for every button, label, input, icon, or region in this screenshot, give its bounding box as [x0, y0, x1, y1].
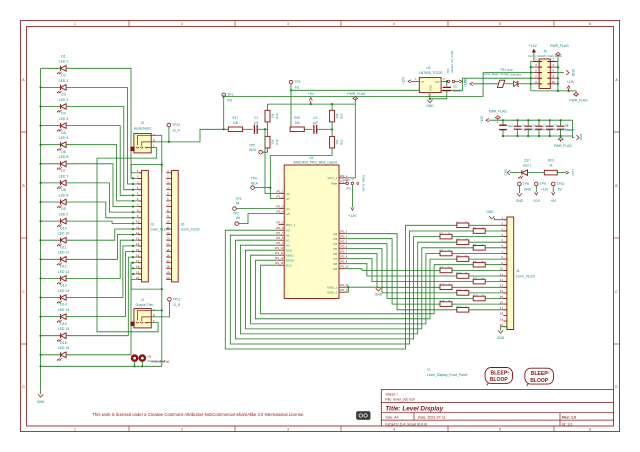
- wire D1 to J3 pin 2: [66, 68, 133, 178]
- svg-text:3: 3: [287, 427, 289, 431]
- svg-text:TP3: TP3: [233, 211, 239, 215]
- svg-text:LED 1: LED 1: [523, 163, 532, 167]
- wire C9 to GND: [430, 91, 447, 99]
- CC license badge: [357, 412, 371, 420]
- svg-text:D6: D6: [333, 252, 337, 256]
- svg-text:JP2_12: JP2_12: [340, 288, 349, 292]
- svg-text:17: 17: [166, 259, 170, 263]
- wire bus to D3: [41, 106, 61, 108]
- svg-text:11: 11: [136, 225, 139, 229]
- svg-text:JP1_7: JP1_7: [276, 231, 284, 235]
- svg-text:J2: J2: [141, 121, 145, 125]
- svg-text:LED 13: LED 13: [58, 289, 70, 293]
- svg-text:Id: 1/1: Id: 1/1: [562, 422, 572, 426]
- svg-text:5: 5: [499, 427, 501, 431]
- svg-text:12: 12: [166, 231, 170, 235]
- junction J3 pin 19: [132, 273, 134, 275]
- svg-text:18: 18: [500, 312, 504, 316]
- svg-text:D11: D11: [60, 245, 66, 249]
- svg-text:D12: D12: [60, 265, 66, 269]
- wire C1 node: [257, 128, 267, 130]
- svg-text:LED 2: LED 2: [59, 79, 69, 83]
- svg-text:C9: C9: [453, 85, 457, 89]
- wire D19 to J5: [518, 83, 531, 85]
- svg-text:D3: D3: [333, 237, 337, 241]
- power +12V U3: [408, 80, 411, 83]
- svg-text:LED 4: LED 4: [59, 117, 69, 121]
- wire bus to D6: [41, 163, 61, 165]
- svg-text:+12V: +12V: [571, 169, 575, 176]
- svg-text:JP1_8: JP1_8: [276, 236, 284, 240]
- sheet ruler ticks and zone numbers: [128, 21, 130, 27]
- wire D11 to J3 pin 12: [66, 235, 133, 260]
- wire R20 to C2: [304, 128, 312, 130]
- svg-text:JP1_13: JP1_13: [275, 261, 284, 265]
- svg-text:LED 9: LED 9: [59, 213, 69, 217]
- junction J3 pin 18: [132, 267, 134, 269]
- svg-text:PWR_FLAG: PWR_FLAG: [489, 109, 508, 113]
- junction J3 pin 4: [132, 189, 134, 191]
- svg-text:H2: H2: [148, 355, 152, 359]
- svg-text:File: level_pcb.sch: File: level_pcb.sch: [385, 397, 415, 401]
- wire GND to mounting pads: [41, 365, 162, 367]
- svg-text:+: +: [496, 120, 498, 124]
- svg-text:JP5: JP5: [346, 186, 351, 190]
- svg-text:JP2_3: JP2_3: [340, 230, 348, 234]
- svg-text:J2_R: J2_R: [172, 129, 180, 133]
- svg-text:Conn_01x20: Conn_01x20: [181, 228, 200, 232]
- svg-text:LED 10: LED 10: [58, 232, 70, 236]
- svg-text:10k: 10k: [295, 121, 301, 125]
- wire TP6 IN1 to J5: [290, 84, 292, 129]
- wire D5 to J3 pin 6: [66, 145, 133, 201]
- svg-text:D7: D7: [61, 169, 66, 173]
- svg-text:RST_1: RST_1: [286, 223, 296, 227]
- connector J3 pins: [133, 172, 142, 174]
- svg-text:10: 10: [500, 267, 504, 271]
- svg-text:15: 15: [136, 248, 140, 252]
- power +12V caps: [486, 119, 489, 122]
- ground GND caps: [573, 136, 575, 138]
- svg-text:PWR_FLAG: PWR_FLAG: [554, 144, 573, 148]
- wire VO node: [441, 80, 447, 82]
- junction J3 pin 7: [132, 205, 134, 207]
- svg-text:T: T: [153, 319, 155, 323]
- svg-text:10uF: 10uF: [508, 125, 514, 128]
- svg-text:SCK: SCK: [286, 248, 292, 252]
- svg-text:20: 20: [166, 276, 170, 280]
- svg-text:MISO: MISO: [286, 253, 294, 257]
- svg-text:C7: C7: [554, 124, 558, 128]
- junction J3 pin 10: [132, 222, 134, 224]
- logo G2 BLEEP BLOOP: [525, 368, 554, 384]
- svg-text:JP2_1: JP2_1: [340, 174, 348, 178]
- svg-text:Sheet: /: Sheet: /: [385, 393, 397, 397]
- svg-text:TP9: TP9: [540, 182, 546, 186]
- svg-text:1uF: 1uF: [253, 121, 259, 125]
- svg-text:Raw: Raw: [331, 182, 338, 186]
- junction J3 pin 3: [132, 183, 134, 185]
- capacitor C5: [527, 120, 529, 126]
- wire caps bottom rail: [503, 120, 573, 136]
- svg-text:10: 10: [552, 80, 556, 84]
- capacitor C6: [538, 120, 540, 126]
- connector J6 pins: [166, 172, 171, 174]
- svg-text:IN2A: IN2A: [249, 148, 257, 152]
- svg-text:JP2_7: JP2_7: [340, 250, 348, 254]
- svg-text:1uF: 1uF: [313, 121, 319, 125]
- ground GND D17: [507, 170, 510, 175]
- wire bus to D1: [41, 67, 61, 69]
- wire bus to D5: [41, 144, 61, 146]
- svg-text:TP8: TP8: [523, 182, 529, 186]
- junction J3 pin 6: [132, 200, 134, 202]
- svg-text:LM7805_TO220: LM7805_TO220: [419, 71, 443, 75]
- junction J3 pin 17: [132, 262, 134, 264]
- capacitor C9: [446, 81, 448, 86]
- resistor R21: [330, 110, 335, 122]
- svg-text:LED 7: LED 7: [59, 174, 69, 178]
- wire J2 tip loop to J1: [97, 148, 158, 332]
- wire R17 to C1: [243, 128, 253, 130]
- svg-text:2: 2: [181, 427, 183, 431]
- test point TP11: [168, 298, 172, 302]
- svg-text:GND: GND: [516, 199, 524, 203]
- mounting pad H1: [131, 354, 139, 362]
- junction bus D4: [40, 125, 42, 127]
- svg-text:+12V: +12V: [348, 214, 357, 218]
- svg-text:JP1_5: JP1_5: [276, 221, 284, 225]
- test point TP5: [262, 148, 267, 152]
- svg-text:D8: D8: [333, 262, 337, 266]
- svg-text:JP1_9: JP1_9: [276, 241, 284, 245]
- ground GND U3: [429, 99, 431, 100]
- svg-text:R19: R19: [275, 113, 279, 119]
- svg-text:LED 1: LED 1: [59, 60, 69, 64]
- svg-text:KiCad E.D.A. kicad (6.0.0): KiCad E.D.A. kicad (6.0.0): [385, 422, 427, 426]
- svg-text:JP1_1: JP1_1: [276, 190, 284, 194]
- test point TP6: [289, 80, 293, 84]
- svg-text:TP12: TP12: [172, 123, 180, 127]
- connector J6 body: [172, 170, 179, 282]
- wire GND pins U1: [345, 287, 349, 292]
- svg-text:C1: C1: [254, 116, 258, 120]
- wire J1 sleeve to gap bus: [151, 309, 162, 311]
- svg-text:17: 17: [136, 259, 140, 263]
- svg-text:A4: A4: [236, 202, 240, 206]
- wire J5 pin6 to GND: [556, 72, 564, 74]
- junction bus D5: [40, 144, 42, 146]
- ground GND bottom left: [38, 394, 43, 397]
- svg-text:+12V: +12V: [402, 76, 406, 84]
- svg-text:BLOOP: BLOOP: [490, 377, 508, 383]
- junction J3 pin 5: [132, 194, 134, 196]
- wire GND to D17: [510, 172, 522, 174]
- svg-text:LED 3: LED 3: [59, 98, 69, 102]
- svg-text:D5: D5: [333, 247, 337, 251]
- svg-text:10: 10: [166, 220, 170, 224]
- wire J5 left bracket: [531, 62, 534, 91]
- svg-text:D4: D4: [61, 112, 66, 116]
- svg-text:D9: D9: [61, 207, 66, 211]
- svg-text:G2: G2: [546, 371, 550, 375]
- wire D3 to J3 pin 4: [66, 107, 133, 190]
- svg-text:6: 6: [589, 22, 591, 26]
- svg-text:MountingPad: MountingPad: [152, 359, 170, 363]
- svg-text:LED 12: LED 12: [58, 270, 70, 274]
- wire bus to D9: [41, 220, 61, 222]
- svg-text:JP2_10: JP2_10: [340, 265, 349, 269]
- svg-text:GND: GND: [486, 210, 494, 214]
- capacitor C4: [517, 120, 519, 126]
- svg-text:LED 11: LED 11: [58, 251, 69, 255]
- svg-text:A1: A1: [286, 233, 290, 237]
- svg-text:14: 14: [166, 242, 170, 246]
- ground GND J4 bottom: [501, 327, 507, 331]
- svg-text:D2: D2: [333, 232, 337, 236]
- svg-text:14: 14: [136, 242, 140, 246]
- svg-text:LED 15: LED 15: [58, 327, 70, 331]
- svg-text:TP2: TP2: [236, 197, 242, 201]
- connector J4 pins: [503, 219, 507, 221]
- svg-text:R23: R23: [548, 159, 554, 163]
- wire TP1 to R17: [223, 97, 225, 130]
- svg-text:JP2_5: JP2_5: [340, 240, 348, 244]
- svg-text:TP6: TP6: [295, 80, 301, 84]
- wire +5V rail: [268, 103, 356, 105]
- svg-text:15: 15: [500, 295, 504, 299]
- mcu U1 left pins: [279, 193, 285, 195]
- wire TP11 to J1 ring: [151, 301, 169, 317]
- junction J3 pin 2: [132, 177, 134, 179]
- wire D8 to J3 pin 9: [66, 202, 133, 218]
- wire J3 pin20 wrap: [131, 280, 162, 290]
- svg-text:GND_1: GND_1: [327, 285, 337, 289]
- svg-text:Conn_02x05_Odd_Even: Conn_02x05_Odd_Even: [528, 54, 562, 58]
- power flag PWR_FLAG +5V: [354, 99, 356, 101]
- wire +5V to VCC: [345, 104, 356, 178]
- svg-text:R18: R18: [275, 139, 279, 145]
- wire bundle left pins to J4 rows 2-9: [225, 225, 456, 349]
- resistor R19: [265, 110, 270, 122]
- svg-text:PWR_FLAG: PWR_FLAG: [569, 99, 588, 103]
- mounting pad H2: [139, 354, 147, 362]
- wire bus to D12: [41, 277, 61, 279]
- svg-text:15: 15: [166, 248, 170, 252]
- svg-text:18: 18: [136, 265, 140, 269]
- svg-text:4: 4: [393, 427, 395, 431]
- power +5V U3: [455, 80, 460, 82]
- svg-text:JP2_4: JP2_4: [340, 235, 348, 239]
- svg-text:1: 1: [74, 22, 76, 26]
- svg-text:GND: GND: [524, 187, 532, 191]
- svg-text:C6: C6: [543, 124, 547, 128]
- logo G1 BLEEP BLOOP: [485, 368, 512, 384]
- junction J3 pin 11: [132, 228, 134, 230]
- svg-text:10: 10: [136, 220, 140, 224]
- junction bus D15: [40, 335, 42, 337]
- wire D7 to J3 pin 8: [66, 183, 133, 212]
- junction J3 pin 9: [132, 217, 134, 219]
- power +12V D17: [566, 171, 569, 174]
- svg-text:PWR_FLAG: PWR_FLAG: [347, 92, 366, 96]
- svg-text:D15: D15: [60, 322, 66, 326]
- svg-text:GND_2: GND_2: [327, 290, 337, 294]
- wire R23 to +12V: [557, 172, 566, 174]
- wire D2 to J3 pin 3: [66, 87, 133, 184]
- svg-text:13: 13: [136, 237, 140, 241]
- svg-text:FB1: FB1: [501, 68, 507, 72]
- junction bus D7: [40, 182, 42, 184]
- svg-text:C5: C5: [532, 124, 536, 128]
- test point TP12: [167, 123, 171, 127]
- junction bus D16: [40, 354, 42, 356]
- svg-text:A6: A6: [286, 192, 290, 196]
- svg-text:GND: GND: [375, 293, 383, 297]
- svg-text:D5: D5: [61, 131, 66, 135]
- wire bus to D7: [41, 182, 61, 184]
- capacitor C3 polarized: [502, 120, 504, 125]
- svg-text:TP4: TP4: [251, 177, 257, 181]
- wire bus to D16: [41, 354, 61, 356]
- junction J3 pin 13: [132, 239, 134, 241]
- svg-text:5: 5: [499, 22, 501, 26]
- power flag PWR_FLAG caps bottom: [560, 136, 562, 137]
- svg-text:+5V: +5V: [463, 77, 467, 84]
- svg-text:12: 12: [136, 231, 140, 235]
- svg-text:D17: D17: [524, 159, 530, 163]
- wire IN2 node to A6: [265, 129, 279, 193]
- svg-text:VO: VO: [435, 80, 440, 84]
- junction bus D13: [40, 296, 42, 298]
- svg-text:D4: D4: [333, 242, 337, 246]
- svg-text:JP2_8: JP2_8: [340, 255, 348, 259]
- svg-text:17: 17: [500, 306, 504, 310]
- svg-text:JP1_10: JP1_10: [275, 246, 284, 250]
- svg-text:R17: R17: [232, 116, 238, 120]
- wire bus to D4: [41, 125, 61, 127]
- svg-text:R21: R21: [339, 113, 343, 119]
- wire bus to D15: [41, 335, 61, 337]
- power +12V Raw: [351, 185, 353, 208]
- test point TP8: [518, 182, 522, 186]
- wire R19 to +5V rail: [267, 104, 269, 110]
- svg-text:14: 14: [500, 289, 504, 293]
- ground GND J5 right: [566, 70, 569, 75]
- svg-text:6: 6: [589, 427, 591, 431]
- svg-text:J1_R: J1_R: [173, 303, 181, 307]
- wire U3 GND pin: [429, 93, 431, 99]
- svg-text:This work is licensed under a: This work is licensed under a Creative C…: [93, 412, 305, 417]
- svg-text:D19: D19: [507, 68, 513, 72]
- svg-text:VI: VI: [421, 80, 424, 84]
- junction bus D11: [40, 258, 42, 260]
- svg-text:R22: R22: [339, 139, 343, 145]
- wire bus to D11: [41, 258, 61, 260]
- wire TP2 to A4: [236, 208, 278, 210]
- svg-text:D6: D6: [61, 150, 66, 154]
- svg-text:20: 20: [136, 276, 140, 280]
- wire D10 to J3 pin 11: [66, 229, 133, 240]
- wire J5 bottom rail: [531, 90, 573, 92]
- svg-text:JP1_11: JP1_11: [275, 251, 284, 255]
- svg-text:Jumper_NO_Small: Jumper_NO_Small: [450, 51, 454, 73]
- svg-text:TP5: TP5: [249, 143, 255, 147]
- svg-text:A4: A4: [286, 207, 290, 211]
- svg-text:D14: D14: [60, 303, 66, 307]
- svg-text:GND: GND: [497, 336, 505, 340]
- junction J3 pin 16: [132, 256, 134, 258]
- svg-text:16: 16: [166, 253, 170, 257]
- test point TP1: [222, 93, 226, 97]
- svg-text:D2: D2: [61, 74, 66, 78]
- wire bus to D14: [41, 316, 61, 318]
- junction J3 pin 8: [132, 211, 134, 213]
- svg-text:A7: A7: [286, 197, 290, 201]
- wire D14 to J3 pin 15: [66, 252, 133, 317]
- svg-text:19: 19: [500, 317, 504, 321]
- junction J3 pin 14: [132, 245, 134, 247]
- power +12V input arrow: [470, 82, 473, 85]
- svg-text:LED 16: LED 16: [58, 346, 70, 350]
- svg-text:A3: A3: [286, 243, 290, 247]
- svg-text:J6: J6: [181, 222, 185, 226]
- svg-text:19: 19: [136, 270, 140, 274]
- svg-text:3: 3: [287, 22, 289, 26]
- svg-text:16: 16: [500, 300, 504, 304]
- svg-text:16: 16: [136, 253, 140, 257]
- svg-text:X1: X1: [427, 367, 431, 371]
- svg-text:D10: D10: [286, 263, 292, 267]
- svg-text:+5V: +5V: [308, 92, 315, 96]
- wire bus to D8: [41, 201, 61, 203]
- wire +12V to FB1: [473, 83, 498, 85]
- svg-text:100nF: 100nF: [453, 89, 462, 93]
- svg-text:D16: D16: [60, 341, 66, 345]
- wire J3 pin1 bridge to J6 pin1: [131, 165, 162, 173]
- wire bus to D13: [41, 297, 61, 299]
- test point TP4: [251, 186, 255, 190]
- power +5V filters: [310, 101, 312, 105]
- svg-text:A2: A2: [286, 238, 290, 242]
- svg-text:A5: A5: [286, 212, 290, 216]
- power +12V J5 rail: [568, 88, 570, 91]
- wire bus to D10: [41, 239, 61, 241]
- svg-text:GND: GND: [571, 69, 575, 77]
- svg-text:+5V: +5V: [550, 199, 557, 203]
- svg-text:C4: C4: [522, 124, 526, 128]
- wire bus to D2: [41, 86, 61, 88]
- junction bus D9: [40, 220, 42, 222]
- svg-text:18: 18: [166, 265, 170, 269]
- power flag PWR_FLAG Raw: [357, 182, 359, 184]
- svg-text:D13: D13: [60, 284, 66, 288]
- title block frame: [381, 388, 613, 390]
- wire J2 sleeve: [151, 134, 162, 136]
- svg-text:TP10: TP10: [557, 182, 565, 186]
- wire J5 right bracket: [556, 62, 558, 91]
- svg-text:Date: 2021-07-11: Date: 2021-07-11: [418, 415, 446, 419]
- connector J3 body: [142, 170, 149, 282]
- wire FB1 to D19: [504, 83, 513, 85]
- svg-text:JP2: JP2: [446, 68, 450, 73]
- svg-text:MOSI: MOSI: [286, 258, 294, 262]
- svg-text:D_Schottky: D_Schottky: [507, 73, 522, 77]
- svg-text:+12V: +12V: [529, 44, 538, 48]
- wire D12 to J3 pin 13: [66, 240, 133, 278]
- wire +12V to VI: [411, 80, 420, 82]
- svg-text:D7: D7: [333, 257, 337, 261]
